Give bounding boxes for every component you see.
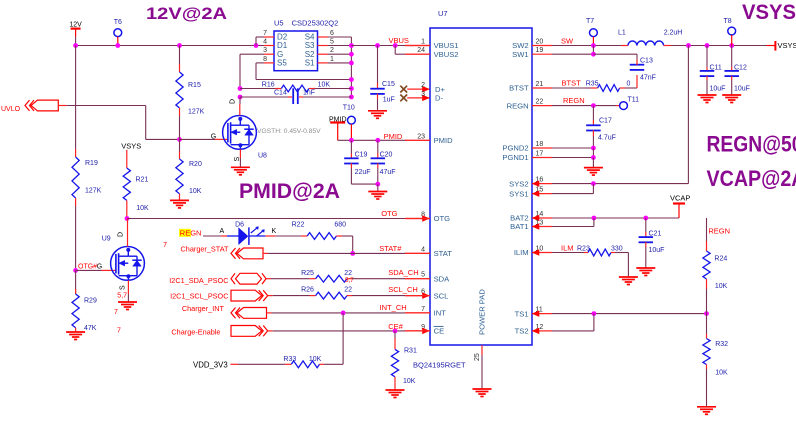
pin label G U8: [211, 133, 216, 140]
net label VBUS: [389, 36, 409, 45]
wire SDA row: [266, 278, 310, 280]
svg-text:2: 2: [330, 47, 334, 54]
svg-text:R33: R33: [283, 356, 296, 363]
component U5 box: [274, 31, 318, 71]
svg-text:7: 7: [117, 328, 121, 335]
svg-text:19: 19: [536, 47, 544, 54]
capacitor C20: [371, 140, 396, 184]
pin U7.6 SCL: [405, 289, 448, 301]
resistor R25: [301, 270, 352, 282]
svg-text:10K: 10K: [309, 356, 322, 363]
svg-text:Charger_INT: Charger_INT: [182, 304, 225, 313]
svg-text:SW: SW: [561, 37, 574, 46]
wire BTST: [552, 87, 591, 89]
junction C11 top: [705, 43, 710, 48]
svg-text:7: 7: [421, 306, 425, 313]
svg-text:TS2: TS2: [515, 327, 529, 336]
svg-text:T11: T11: [628, 97, 640, 104]
pin U5.5 S3: [305, 39, 334, 51]
svg-text:INT: INT: [434, 309, 447, 318]
svg-text:20: 20: [536, 39, 544, 46]
wire PMID row: [338, 139, 430, 141]
svg-text:PGND1: PGND1: [502, 153, 528, 162]
svg-text:SCL_CH: SCL_CH: [388, 285, 418, 294]
svg-text:C20: C20: [380, 152, 393, 159]
wire to gnd C19 C20: [377, 184, 379, 191]
svg-text:ILIM: ILIM: [514, 248, 529, 257]
pin U7.5 SDA: [405, 272, 450, 284]
pin label K: [272, 228, 277, 235]
net label STAT#: [379, 244, 402, 253]
svg-text:1: 1: [421, 39, 425, 46]
svg-text:R35: R35: [586, 81, 599, 88]
svg-text:D: D: [118, 232, 125, 237]
svg-text:C21: C21: [649, 231, 662, 238]
wire TS1 row: [552, 313, 707, 315]
svg-text:R21: R21: [136, 177, 149, 184]
page ref 5,7 R25: [345, 277, 354, 284]
svg-text:G: G: [97, 263, 102, 270]
big heading PMID@2A: [239, 180, 340, 203]
pin line D-: [407, 95, 430, 101]
wire R19 to OTG#G node: [75, 206, 77, 270]
svg-text:T10: T10: [343, 105, 355, 112]
ground C11: [698, 95, 717, 103]
svg-text:C11: C11: [710, 65, 722, 72]
svg-text:VSYS: VSYS: [778, 41, 796, 50]
wire TS2 jog: [552, 314, 594, 331]
svg-text:10uF: 10uF: [649, 247, 665, 254]
pin U5.8 S5: [263, 56, 287, 68]
pin U7.24 VBUS2: [405, 47, 459, 59]
svg-text:25: 25: [474, 353, 481, 361]
junction SW1: [591, 52, 596, 57]
svg-text:2: 2: [421, 82, 425, 89]
wire BAT1 jog: [552, 218, 594, 227]
wire U8 drain net: [239, 97, 241, 104]
svg-text:22uF: 22uF: [355, 169, 371, 176]
power port PMID: [329, 116, 347, 140]
svg-text:R19: R19: [85, 160, 98, 167]
svg-text:VCAP: VCAP: [670, 194, 690, 203]
resistor R29: [72, 289, 97, 332]
svg-text:R22: R22: [292, 222, 305, 229]
no-connect X D+: [400, 86, 407, 93]
svg-text:24: 24: [417, 47, 425, 54]
wire REGN divider top: [706, 218, 708, 241]
svg-text:R16: R16: [262, 82, 275, 89]
ground POWER PAD: [473, 389, 492, 397]
svg-text:PMID@2A: PMID@2A: [239, 180, 340, 203]
wire R23 to gnd: [615, 253, 628, 278]
page ref 7 low: [117, 328, 121, 335]
svg-text:C12: C12: [734, 65, 747, 72]
port Charger_STAT: [181, 245, 264, 259]
ground R20: [170, 200, 189, 208]
pin U7.8 OTG: [405, 212, 450, 224]
svg-text:U8: U8: [258, 153, 267, 160]
svg-text:4: 4: [421, 246, 425, 253]
svg-text:D+: D+: [435, 85, 445, 94]
svg-text:SCL: SCL: [434, 291, 449, 300]
wire U9 source: [127, 280, 129, 302]
svg-text:3: 3: [421, 91, 425, 98]
pin U7.25 POWER PAD: [474, 289, 487, 389]
svg-text:5: 5: [330, 39, 334, 46]
pin label G U9: [97, 263, 102, 270]
svg-text:BTST: BTST: [509, 84, 529, 93]
junction C15 top: [375, 43, 380, 48]
svg-text:REGN: REGN: [180, 229, 202, 238]
net label SW: [561, 37, 574, 46]
wire VSYS to SYS pins: [593, 46, 688, 184]
junction 12V: [73, 43, 78, 48]
pin U5.3 G: [263, 47, 283, 59]
wire R33 to INT: [324, 313, 343, 364]
svg-text:PMID: PMID: [434, 136, 454, 145]
svg-text:4: 4: [263, 39, 267, 46]
LED D6: [203, 222, 275, 245]
junction PGND2: [591, 146, 596, 151]
svg-text:R26: R26: [301, 287, 314, 294]
svg-text:REGN: REGN: [507, 101, 529, 110]
port I2C1_SDA_PSOC: [169, 273, 266, 285]
ground R32: [697, 407, 716, 415]
wire CE row: [268, 330, 430, 332]
pin U7.9 CE: [405, 324, 444, 336]
pin U7.2 D+: [421, 82, 445, 94]
svg-text:SDA_CH: SDA_CH: [388, 268, 418, 277]
svg-text:VDD_3V3: VDD_3V3: [193, 360, 228, 369]
test point T6: [114, 19, 122, 46]
svg-text:7: 7: [163, 242, 167, 249]
junction S bus 3: [349, 61, 354, 66]
svg-text:S: S: [120, 285, 127, 290]
ground PGND: [584, 168, 603, 176]
svg-text:5: 5: [421, 272, 425, 279]
junction C14 left: [238, 95, 243, 100]
svg-text:12V@2A: 12V@2A: [146, 4, 227, 23]
svg-text:R31: R31: [404, 348, 417, 355]
resistor R22: [275, 222, 352, 240]
svg-text:VSYS: VSYS: [742, 1, 796, 24]
wire PGND1 row: [552, 148, 593, 158]
wire SCL to pin: [352, 295, 430, 297]
junction S bus 4: [349, 77, 354, 82]
svg-text:10K: 10K: [403, 378, 416, 385]
junction OTG#G: [73, 268, 78, 273]
svg-text:CE#: CE#: [388, 322, 403, 331]
svg-text:22: 22: [536, 99, 544, 106]
wire 12V rail: [76, 45, 264, 47]
wire VBUS2 branch: [395, 46, 430, 55]
svg-text:23: 23: [417, 133, 425, 140]
wire U9 drain: [127, 219, 129, 247]
net label REGN right: [708, 227, 730, 236]
svg-text:10uF: 10uF: [710, 86, 726, 93]
svg-text:G: G: [211, 133, 216, 140]
pin U5.7 D2: [263, 30, 288, 42]
power port 12V: [69, 22, 82, 37]
svg-text:U5: U5: [274, 19, 284, 28]
wire gate node to U8 gate: [180, 138, 228, 140]
wire OTG#G down to R29: [75, 270, 77, 294]
junction U5 D2 branch: [254, 43, 259, 48]
net label BTST: [562, 79, 582, 88]
pin U7.13 BAT1: [510, 220, 552, 232]
wire UVLO: [58, 106, 179, 140]
svg-text:POWER PAD: POWER PAD: [478, 289, 487, 335]
net label OTG#: [78, 263, 97, 270]
svg-text:R24: R24: [714, 256, 727, 263]
pin U7.15 SYS1: [509, 187, 552, 199]
capacitor C15: [370, 46, 395, 111]
big heading VCAP@2A: [707, 166, 796, 191]
resistor R33: [283, 356, 324, 368]
pin U7.7 INT: [405, 306, 446, 318]
resistor R16: [240, 82, 351, 92]
svg-text:18: 18: [536, 141, 544, 148]
svg-text:127K: 127K: [188, 109, 205, 116]
pin label A: [220, 228, 225, 235]
capacitor C21: [639, 218, 665, 268]
svg-text:REGN@50mA: REGN@50mA: [707, 132, 796, 157]
test point T7: [586, 18, 597, 46]
svg-text:6: 6: [330, 30, 334, 37]
svg-text:2.2uH: 2.2uH: [664, 30, 683, 37]
capacitor C19: [344, 140, 378, 184]
designator U5: [274, 19, 338, 28]
no-connect X D-: [400, 95, 407, 102]
test point T8: [724, 18, 736, 46]
svg-text:REGN: REGN: [708, 227, 730, 236]
port Charge-Enable: [171, 326, 267, 337]
wire U8 source: [239, 149, 241, 167]
svg-text:330: 330: [611, 246, 623, 253]
svg-text:C14: C14: [274, 90, 287, 97]
svg-text:S5: S5: [277, 59, 287, 68]
wire PGND2 row: [552, 147, 593, 149]
test point T11: [620, 97, 640, 110]
pin U7.10 ILIM: [514, 246, 552, 258]
wire U5 G net: [240, 54, 264, 88]
junction C19 C20 gnd: [375, 182, 380, 187]
port I2C1_SCL_PSOC: [170, 290, 268, 301]
svg-text:OTG: OTG: [434, 214, 451, 223]
svg-text:1: 1: [330, 56, 334, 63]
junction STAT: [350, 251, 355, 256]
svg-text:12V: 12V: [69, 22, 82, 29]
pin U5.4 D1: [263, 39, 288, 51]
designator U7: [438, 9, 448, 18]
svg-text:ILM: ILM: [561, 244, 574, 253]
net label VDD_3V3: [193, 360, 228, 369]
svg-text:I2C1_SCL_PSOC: I2C1_SCL_PSOC: [170, 291, 228, 300]
junction PMID C19: [349, 138, 354, 143]
pin U7.22 REGN: [507, 99, 552, 111]
svg-text:PGND2: PGND2: [502, 144, 528, 153]
page ref 5,7 U9: [117, 293, 127, 300]
svg-text:SDA: SDA: [434, 274, 451, 283]
svg-text:10K: 10K: [136, 205, 149, 212]
svg-text:INT_CH: INT_CH: [380, 303, 407, 312]
big heading REGN@50mA: [707, 132, 796, 157]
junction S bus 6: [349, 95, 354, 100]
svg-text:10K: 10K: [189, 188, 202, 195]
pin U7.18 PGND2: [502, 141, 552, 153]
junction TS1: [592, 311, 597, 316]
net label REGN at D6: [179, 229, 201, 238]
svg-text:D-: D-: [435, 94, 443, 103]
pin label D U8: [230, 99, 237, 104]
svg-text:L1: L1: [618, 30, 626, 37]
power port VSYS: [767, 41, 796, 51]
svg-text:STAT: STAT: [434, 249, 453, 258]
junction R15 top: [177, 43, 182, 48]
svg-text:A: A: [220, 228, 225, 235]
wire U8 drain: [239, 104, 241, 116]
svg-text:D: D: [230, 99, 237, 104]
svg-text:1uF: 1uF: [383, 97, 395, 104]
resistor R31: [391, 331, 417, 390]
svg-text:47uF: 47uF: [380, 169, 396, 176]
resistor R32: [703, 314, 728, 407]
ground C21: [636, 268, 655, 276]
wire VSYS rail: [671, 45, 767, 47]
pin line D+: [407, 86, 430, 92]
svg-text:C13: C13: [640, 58, 653, 65]
pin U7.16 SYS2: [509, 177, 552, 189]
pin U7.14 BAT2: [510, 211, 552, 223]
ground U8: [231, 167, 250, 175]
svg-text:S1: S1: [305, 59, 315, 68]
svg-text:BAT1: BAT1: [510, 222, 528, 231]
ground C12: [722, 95, 741, 103]
wire REGN row: [552, 105, 620, 107]
svg-text:5,7: 5,7: [345, 277, 354, 284]
net label INT_CH: [380, 303, 407, 312]
pin U5.2 S2: [305, 47, 334, 59]
junction S bus 1: [349, 43, 354, 48]
wire VDD stub: [230, 363, 285, 365]
junction PGND1: [591, 155, 596, 160]
net label REGN: [563, 96, 585, 105]
pin U7.3 D-: [421, 91, 443, 103]
net label VSYS: [121, 142, 141, 151]
wire SW row: [552, 45, 621, 47]
inductor L1: [618, 30, 682, 46]
svg-text:1nF: 1nF: [303, 90, 315, 97]
svg-text:VBUS1: VBUS1: [434, 41, 459, 50]
pin U7.1 VBUS1: [405, 39, 459, 51]
junction T6: [115, 43, 120, 48]
net label SDA_CH: [388, 268, 418, 277]
pin U7.20 SW2: [512, 39, 552, 51]
svg-text:VSYS: VSYS: [121, 142, 141, 151]
svg-text:T6: T6: [114, 19, 122, 26]
svg-text:BTST: BTST: [562, 79, 582, 88]
svg-text:K: K: [272, 228, 277, 235]
junction VSYS SYS: [686, 43, 691, 48]
svg-text:22: 22: [344, 270, 352, 277]
wire U5 S5 jog: [256, 63, 351, 80]
svg-text:G: G: [277, 50, 283, 59]
ground C15: [368, 111, 387, 119]
svg-text:5,7: 5,7: [117, 293, 127, 300]
svg-text:680: 680: [334, 222, 346, 229]
capacitor C17: [586, 106, 616, 148]
pin U7.23 PMID: [405, 133, 453, 145]
junction SYS2: [591, 181, 596, 186]
resistor R26: [301, 287, 352, 299]
pin U5.6 S4: [305, 30, 334, 42]
junction PMID C20: [375, 138, 380, 143]
svg-text:VCAP@2A: VCAP@2A: [707, 166, 796, 191]
junction REGN: [591, 103, 596, 108]
svg-text:R15: R15: [188, 82, 201, 89]
capacitor C13: [593, 54, 656, 88]
svg-text:VBUS: VBUS: [389, 36, 409, 45]
wire 12V down-left: [75, 46, 77, 150]
port UVLO: [1, 100, 58, 113]
svg-text:OTG#: OTG#: [78, 263, 97, 270]
svg-text:U7: U7: [438, 9, 448, 18]
capacitor C12: [724, 46, 750, 96]
resistor R21: [123, 150, 149, 219]
wire D2 branch: [256, 37, 264, 46]
junction R16 left: [238, 86, 243, 91]
svg-text:10uF: 10uF: [734, 86, 750, 93]
resistor R35: [586, 81, 631, 92]
test point T10: [343, 105, 356, 141]
pin U7.4 STAT: [405, 246, 452, 258]
junction S bus 2: [349, 52, 354, 57]
big heading VSYS: [742, 1, 796, 24]
junction CE R31: [393, 329, 398, 334]
svg-text:U9: U9: [102, 235, 111, 242]
resistor R23: [577, 246, 623, 256]
pin U7.21 BTST: [509, 81, 552, 93]
svg-text:VBUS2: VBUS2: [434, 50, 459, 59]
svg-text:SW1: SW1: [512, 50, 528, 59]
svg-text:C15: C15: [382, 81, 395, 88]
pin U7.17 PGND1: [502, 151, 552, 163]
net label CE#: [388, 322, 403, 331]
wire R22 down: [352, 236, 354, 253]
svg-text:T8: T8: [724, 18, 732, 25]
svg-text:VGSTH: 0.45V-0.85V: VGSTH: 0.45V-0.85V: [257, 128, 321, 135]
svg-text:10K: 10K: [318, 82, 331, 89]
power port VCAP: [670, 194, 690, 219]
part number BQ24195RGET: [413, 361, 466, 370]
svg-text:0: 0: [627, 81, 631, 88]
capacitor C14: [240, 88, 351, 104]
page ref 7 STAT: [163, 242, 167, 249]
IC U7 box: [430, 28, 532, 345]
ground C19 C20: [368, 192, 387, 200]
net label SCL_CH: [388, 285, 418, 294]
net label OTG: [381, 209, 397, 218]
svg-text:SYS1: SYS1: [509, 189, 528, 198]
svg-text:D1: D1: [277, 41, 288, 50]
wire R35 to C13: [625, 87, 637, 89]
svg-text:C19: C19: [355, 152, 368, 159]
ground R31: [386, 390, 405, 398]
net label ILM: [561, 244, 574, 253]
wire STAT row: [263, 252, 430, 254]
svg-text:OTG: OTG: [381, 209, 397, 218]
svg-text:TS1: TS1: [515, 309, 529, 318]
